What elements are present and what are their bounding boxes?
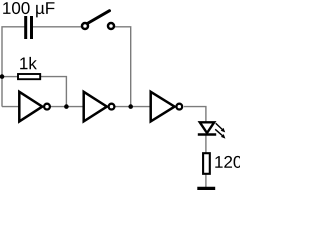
node B dot (U2 output / switch branch) bbox=[128, 104, 133, 109]
switch S1 left contact bbox=[82, 23, 88, 29]
LED D1 cathode bar bbox=[198, 133, 216, 136]
node dot left rail / 1k bbox=[0, 74, 4, 79]
inverter U1 triangle bbox=[19, 92, 42, 122]
LED D1 light arrow 2 bbox=[215, 129, 225, 138]
inverter U2 triangle bbox=[84, 92, 107, 122]
wire 120 resistor to ground bbox=[205, 174, 207, 187]
wire inverter U1 output to inverter U2 input bbox=[50, 106, 84, 108]
wire inverter U3 output right and down to LED bbox=[184, 107, 206, 122]
label 120 bbox=[215, 156, 241, 168]
wire 1k resistor right lead down to node A bbox=[40, 77, 66, 107]
wire inverter U2 output to inverter U3 input bbox=[115, 106, 151, 108]
wire inverter U1 input bbox=[2, 106, 19, 108]
wire switch right contact to top-right corner and down to node B bbox=[115, 27, 131, 107]
label 1k bbox=[20, 57, 37, 69]
capacitor C1 right plate bbox=[30, 16, 33, 39]
wire LED cathode to 120 resistor bbox=[205, 135, 207, 154]
switch S1 lever bbox=[88, 11, 109, 23]
inverter U2 bubble bbox=[109, 104, 115, 110]
inverter U3 bubble bbox=[176, 104, 182, 110]
ground symbol bar bbox=[197, 187, 215, 190]
label 100 uF bbox=[3, 2, 54, 17]
wire 1k resistor left lead bbox=[2, 76, 18, 78]
inverter U1 bubble bbox=[44, 104, 50, 110]
LED D1 light arrow 1 bbox=[216, 123, 226, 132]
capacitor C1 left plate bbox=[24, 16, 27, 39]
switch S1 right contact bbox=[108, 23, 114, 29]
resistor 1k body bbox=[18, 74, 40, 79]
resistor 120 body bbox=[203, 153, 210, 174]
LED D1 triangle bbox=[200, 122, 214, 133]
wire top-left horizontal from left rail to capacitor bbox=[2, 27, 25, 107]
wire capacitor to switch left contact bbox=[32, 26, 82, 28]
inverter U3 triangle bbox=[151, 92, 175, 122]
node A dot (U1 output / 1k feedback) bbox=[64, 104, 69, 109]
